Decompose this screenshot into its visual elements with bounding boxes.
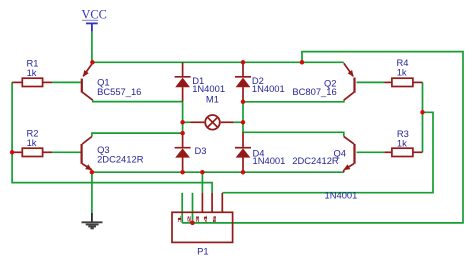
svg-text:1N4001: 1N4001 <box>325 189 358 200</box>
svg-text:1: 1 <box>177 216 182 223</box>
svg-text:1N4001: 1N4001 <box>252 83 285 94</box>
svg-text:D3: D3 <box>195 145 207 156</box>
svg-text:5: 5 <box>212 216 217 223</box>
svg-text:2: 2 <box>186 216 191 223</box>
svg-text:2DC2412R: 2DC2412R <box>97 153 144 164</box>
svg-text:BC557_16: BC557_16 <box>97 86 141 97</box>
svg-text:M1: M1 <box>206 93 219 104</box>
svg-text:2DC2412R: 2DC2412R <box>292 155 339 166</box>
svg-text:BC807_16: BC807_16 <box>292 86 336 97</box>
svg-text:P1: P1 <box>197 246 208 257</box>
svg-text:1k: 1k <box>397 138 407 149</box>
svg-text:1k: 1k <box>27 137 37 148</box>
svg-text:1k: 1k <box>27 67 37 78</box>
svg-text:VCC: VCC <box>82 7 107 21</box>
svg-text:1N4001: 1N4001 <box>253 155 286 166</box>
svg-text:1k: 1k <box>397 67 407 78</box>
svg-text:3: 3 <box>195 216 200 223</box>
svg-text:4: 4 <box>203 215 208 223</box>
